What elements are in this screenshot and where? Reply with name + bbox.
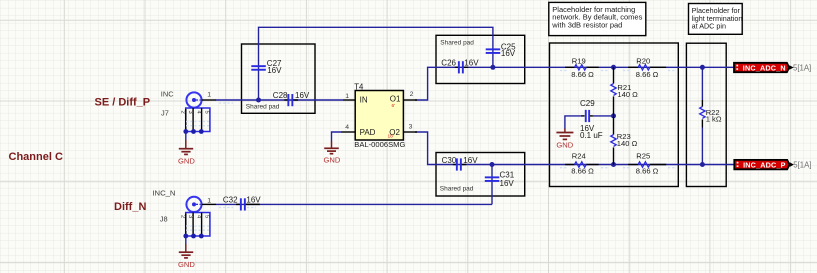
junction dot R22 bottom [700, 162, 705, 167]
svg-text:R20: R20 [636, 57, 650, 66]
wire C25 vertical [492, 35, 494, 67]
resistor R24 [565, 152, 599, 176]
capacitor C26 [441, 59, 479, 74]
svg-text:J8: J8 [160, 215, 168, 224]
svg-text:6': 6' [392, 103, 396, 109]
wire top row through matching to port N [436, 66, 734, 68]
svg-text:PAD: PAD [360, 128, 376, 137]
balun pin 1 [343, 93, 355, 100]
capacitor C32 [223, 196, 261, 211]
svg-text:8.66 Ω: 8.66 Ω [636, 70, 659, 79]
balun pin 2 [403, 91, 417, 100]
svg-text:3: 3 [409, 123, 413, 130]
svg-text:8.66 Ω: 8.66 Ω [636, 167, 659, 176]
svg-text:16V: 16V [501, 49, 516, 58]
ground J7 [178, 140, 195, 165]
note box: light termination placeholder [689, 4, 743, 35]
text SE / Diff_P [95, 97, 151, 109]
ground C29 [556, 129, 573, 150]
matching network box [550, 43, 679, 187]
resistor R20 [628, 57, 666, 79]
capacitor C27 [251, 59, 282, 75]
label INC_N [152, 189, 175, 198]
resistor R22 [700, 67, 722, 164]
wire J8 row [216, 203, 492, 205]
svg-text:4: 4 [345, 124, 349, 131]
svg-text:GND: GND [324, 156, 341, 165]
resistor R25 [628, 152, 666, 176]
svg-text:1 kΩ: 1 kΩ [706, 115, 722, 124]
connector J8 coax symbol [186, 197, 201, 212]
wire pin2 to top shared box [415, 67, 436, 100]
svg-text:INC_N: INC_N [152, 189, 175, 198]
capacitor C30 [442, 156, 479, 170]
svg-text:C32: C32 [223, 196, 238, 205]
svg-text:18': 18' [388, 133, 394, 139]
svg-text:2: 2 [180, 111, 186, 114]
svg-text:C26: C26 [441, 59, 456, 68]
connector J7 shield pins box [180, 108, 210, 132]
connector J7 coax symbol [186, 92, 201, 107]
wire J8 shield to ground [185, 236, 187, 245]
junction dot R23 bottom [611, 162, 616, 167]
svg-text:Shared pad: Shared pad [246, 104, 280, 111]
wire bottom row through matching to port P [436, 164, 734, 166]
junction dot R22 top [700, 65, 705, 70]
capacitor C25 [486, 43, 516, 59]
svg-text:O1: O1 [390, 95, 401, 104]
svg-text:8.66 Ω: 8.66 Ω [571, 167, 594, 176]
svg-text:0.1 uF: 0.1 uF [580, 131, 603, 140]
capacitor C29 [580, 99, 614, 140]
wire balun pad to ground [332, 132, 342, 141]
svg-text:R24: R24 [572, 152, 586, 161]
svg-text:16V: 16V [246, 196, 261, 205]
balun pin 3 [403, 123, 417, 132]
text Diff_N [114, 201, 146, 213]
connector J8 pin 1 [202, 198, 216, 205]
svg-text:Diff_N: Diff_N [114, 201, 146, 213]
wire C29 to ground [565, 116, 581, 129]
text Channel C [9, 151, 63, 163]
svg-text:16V: 16V [295, 91, 310, 100]
svg-text:INC: INC [161, 90, 174, 99]
svg-text:Shared pad: Shared pad [440, 185, 474, 192]
label INC [161, 90, 174, 99]
junction dot C29 node [611, 113, 616, 118]
resistor R23 [611, 116, 638, 165]
svg-text:16V: 16V [267, 66, 282, 75]
svg-text:GND: GND [178, 260, 195, 269]
port INC_ADC_P [734, 160, 811, 170]
svg-text:1: 1 [207, 198, 211, 205]
svg-text:16V: 16V [500, 179, 515, 188]
wire top rail C27 to C25 [259, 27, 493, 44]
wire pin3 to bottom shared box [415, 132, 436, 165]
svg-text:INC_ADC_P: INC_ADC_P [743, 160, 786, 169]
wire J7 row [216, 99, 343, 101]
svg-text:3: 3 [187, 215, 193, 218]
shared pad box (C25/C26) [436, 35, 525, 83]
svg-text:GND: GND [556, 141, 573, 150]
balun pin 4 [341, 124, 355, 132]
svg-text:C30: C30 [442, 156, 457, 165]
svg-text:Shared pad: Shared pad [440, 39, 474, 46]
port INC_ADC_N [734, 63, 811, 73]
junction dot C30/C31 bottom wire [490, 162, 495, 167]
label J8 [160, 215, 168, 224]
svg-text:3: 3 [187, 111, 193, 114]
shared pad box (C27/C28) [242, 44, 316, 113]
note box: matching network placeholder [549, 2, 646, 35]
termination box [686, 43, 726, 186]
svg-text:with 3dB resistor pad: with 3dB resistor pad [551, 21, 622, 30]
svg-text:5: 5 [204, 111, 210, 114]
svg-text:BAL-0006SMG: BAL-0006SMG [354, 140, 405, 149]
junction dot C27/J7 wire [256, 98, 261, 103]
svg-text:140 Ω: 140 Ω [617, 90, 638, 99]
svg-text:2: 2 [180, 215, 186, 218]
resistor R21 [611, 67, 638, 116]
svg-text:C29: C29 [580, 99, 595, 108]
svg-text:R25: R25 [636, 152, 650, 161]
svg-text:SE / Diff_P: SE / Diff_P [95, 97, 151, 109]
shared pad box (C30/C31) [436, 153, 525, 197]
svg-text:2: 2 [410, 91, 414, 98]
J8 shield junction dots [183, 234, 203, 239]
resistor R19 [565, 57, 599, 79]
svg-text:IN: IN [360, 95, 368, 104]
connector J8 shield pins box [180, 213, 210, 237]
svg-text:16V: 16V [464, 59, 479, 68]
balun U T4 [354, 83, 405, 149]
label J7 [161, 108, 169, 117]
svg-text:J7: J7 [161, 108, 169, 117]
svg-text:1: 1 [207, 92, 211, 99]
svg-text:1: 1 [345, 93, 349, 100]
svg-text:5: 5 [204, 215, 210, 218]
ground J8 [178, 244, 195, 269]
svg-text:Channel C: Channel C [9, 151, 63, 163]
junction dot C25 top wire [490, 65, 495, 70]
svg-text:GND: GND [178, 156, 195, 165]
svg-text:16V: 16V [463, 156, 478, 165]
wire C27 vertical [258, 44, 260, 100]
capacitor C28 [273, 91, 310, 106]
svg-text:INC_ADC_N: INC_ADC_N [743, 63, 786, 72]
ground balun pad [324, 141, 341, 165]
J7 shield junction dots [183, 129, 203, 134]
wire C31 vertical to J8 row [491, 165, 493, 205]
svg-text:R19: R19 [572, 57, 586, 66]
svg-text:140 Ω: 140 Ω [617, 139, 638, 148]
svg-text:C28: C28 [273, 91, 288, 100]
wire J7 shield to ground [185, 132, 187, 141]
connector J7 pin 1 [202, 92, 216, 100]
svg-text:5[1A]: 5[1A] [793, 63, 811, 72]
svg-text:8.66 Ω: 8.66 Ω [571, 70, 594, 79]
svg-text:5[1A]: 5[1A] [793, 161, 811, 170]
junction dot R21 top [611, 65, 616, 70]
capacitor C31 [485, 171, 515, 188]
svg-text:at ADC pin: at ADC pin [692, 22, 726, 31]
